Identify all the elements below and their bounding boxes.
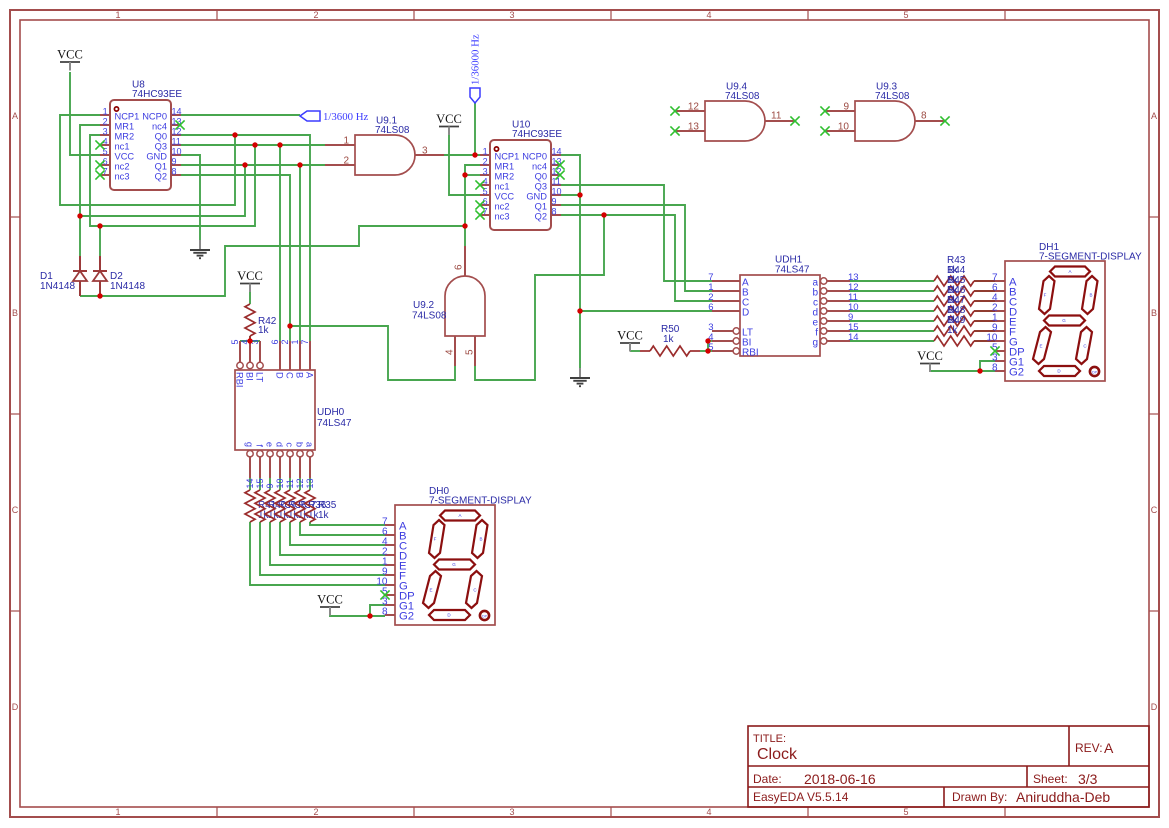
U9.2 pin stubs and numbers xyxy=(464,246,466,276)
svg-text:GND: GND xyxy=(146,151,167,161)
svg-text:MR2: MR2 xyxy=(115,131,135,141)
svg-text:G2: G2 xyxy=(1009,367,1024,379)
op-amp U9.2 74LS08 AND gate xyxy=(412,246,485,366)
wire U10 MR2 xyxy=(465,174,480,176)
chip U8 74HC93EE xyxy=(100,80,182,191)
svg-text:VCC: VCC xyxy=(57,48,83,62)
DH1 pin stubs, pin numbers and pin names xyxy=(995,280,1005,282)
wire U8 Q1 row xyxy=(180,164,325,166)
wire U10 Q3 to UDH1 A xyxy=(560,185,712,281)
diode D1 1N4148 xyxy=(40,256,87,296)
svg-text:A: A xyxy=(1151,111,1157,121)
resistor R46 1k xyxy=(934,285,995,316)
junction (475,155) xyxy=(472,152,477,157)
svg-text:9: 9 xyxy=(843,102,849,113)
svg-text:B: B xyxy=(479,537,482,542)
resistor R39 1k xyxy=(265,490,297,522)
svg-text:VCC: VCC xyxy=(436,112,462,126)
svg-text:1/36000 Hz: 1/36000 Hz xyxy=(470,34,482,85)
svg-text:1: 1 xyxy=(115,807,120,817)
svg-text:D: D xyxy=(12,702,19,712)
svg-text:2: 2 xyxy=(280,339,290,344)
svg-text:5: 5 xyxy=(465,349,476,355)
chip UDH0 74LS47 (rotated) xyxy=(230,339,352,488)
wire DH1 G1 branch xyxy=(980,361,995,371)
svg-text:BI: BI xyxy=(245,372,255,381)
svg-text:15: 15 xyxy=(255,478,265,488)
chip UDH1 74LS47 xyxy=(708,255,858,359)
svg-text:3/3: 3/3 xyxy=(1078,771,1098,787)
wire U9.1 out to U10 NCP1 xyxy=(444,154,480,156)
svg-text:RBI: RBI xyxy=(742,347,759,358)
svg-text:10: 10 xyxy=(552,186,562,196)
UDH0 output pins g-a with bubbles and numbers xyxy=(247,451,253,457)
wire UDH1 to R y311 xyxy=(850,310,934,312)
wire UDH0 col x310 to DH0 row y525 xyxy=(309,478,311,490)
DH1 digit segments xyxy=(1050,267,1090,277)
svg-text:a: a xyxy=(305,442,315,448)
svg-text:12: 12 xyxy=(295,478,305,488)
wire Q2 branch to U9.2 pin5 xyxy=(475,215,604,380)
svg-text:14: 14 xyxy=(172,106,182,116)
svg-text:A: A xyxy=(458,513,461,518)
svg-text:G: G xyxy=(1062,318,1066,323)
svg-text:B: B xyxy=(12,308,18,318)
wire UDH0 col x260 to DH0 row y575 xyxy=(259,478,261,490)
svg-text:nc2: nc2 xyxy=(495,201,510,211)
wire UDH1 to R y331 xyxy=(850,330,934,332)
svg-text:7-SEGMENT-DISPLAY: 7-SEGMENT-DISPLAY xyxy=(429,496,532,507)
resistor R41 1k xyxy=(245,490,277,522)
svg-text:EasyEDA V5.5.14: EasyEDA V5.5.14 xyxy=(753,790,849,804)
wire R42 to UDH0 LT BI RBI xyxy=(249,336,251,341)
svg-text:DP: DP xyxy=(1092,370,1098,374)
svg-text:1: 1 xyxy=(115,10,120,20)
svg-text:B: B xyxy=(1151,308,1157,318)
svg-text:2: 2 xyxy=(343,156,349,167)
svg-text:d: d xyxy=(275,442,285,447)
svg-text:5: 5 xyxy=(903,10,908,20)
svg-text:f: f xyxy=(255,444,265,447)
wire U10 Q2 to UDH1 C xyxy=(560,215,712,301)
junction (465,226) xyxy=(462,223,467,228)
wire U8 NCP1 to Q0 net xyxy=(60,115,235,205)
svg-text:VCC: VCC xyxy=(115,151,135,161)
svg-text:F: F xyxy=(1044,293,1047,298)
svg-text:8: 8 xyxy=(992,362,998,373)
wire U8 MR2 to D2 xyxy=(90,135,255,226)
U9.3 pin stubs and numbers xyxy=(825,110,855,112)
svg-text:3: 3 xyxy=(483,166,488,176)
wire UDH1 to R y321 xyxy=(850,320,934,322)
junction (300,165) xyxy=(297,162,302,167)
junction (708,351) xyxy=(705,348,710,353)
svg-text:6: 6 xyxy=(708,302,713,313)
wire UDH0 col x280 to DH0 row y555 xyxy=(279,478,281,490)
svg-text:G: G xyxy=(452,562,456,567)
wire UDH0 col x270 to DH0 row y565 xyxy=(269,478,271,490)
svg-text:C: C xyxy=(1151,505,1158,515)
junction (100,296) xyxy=(97,293,102,298)
svg-text:4: 4 xyxy=(706,807,711,817)
svg-text:74LS08: 74LS08 xyxy=(725,91,760,102)
junction (280,145) xyxy=(277,142,282,147)
wire U8 MR1 down xyxy=(80,125,100,216)
svg-text:Q1: Q1 xyxy=(535,201,547,211)
svg-text:1N4148: 1N4148 xyxy=(40,281,75,292)
svg-text:D: D xyxy=(1151,702,1158,712)
wire UDH1 D input xyxy=(580,310,712,312)
svg-text:nc1: nc1 xyxy=(495,181,510,191)
junction (465,175) xyxy=(462,172,467,177)
wire U8 Q0 to UDH0 A xyxy=(180,135,310,341)
svg-text:A: A xyxy=(1068,269,1071,274)
UDH1 input pins A B C D with numbers xyxy=(712,280,740,282)
svg-text:Q0: Q0 xyxy=(155,131,167,141)
diode D2 1N4148 xyxy=(93,256,145,296)
svg-text:C: C xyxy=(12,505,19,515)
svg-text:e: e xyxy=(265,442,275,447)
UDH1 pins LT BI RBI with bubbles xyxy=(712,330,733,332)
wire DH0 G1 branch xyxy=(370,605,385,616)
U8 pin stubs, pin numbers and pin names xyxy=(100,114,110,116)
svg-text:nc3: nc3 xyxy=(115,171,130,181)
svg-text:10: 10 xyxy=(838,122,850,133)
ground symbol U8 xyxy=(199,240,201,250)
junction (80,216) xyxy=(77,213,82,218)
resistor R38 1k xyxy=(275,490,307,522)
junction (245,165) xyxy=(242,162,247,167)
svg-text:3: 3 xyxy=(103,126,108,136)
net flag 1/3600 Hz xyxy=(300,111,368,123)
display DH1 7-SEGMENT-DISPLAY xyxy=(986,242,1142,381)
svg-text:A: A xyxy=(12,111,18,121)
junction (604,215) xyxy=(601,212,606,217)
resistor R48 1k xyxy=(934,305,995,336)
svg-text:4: 4 xyxy=(706,10,711,20)
svg-text:NCP1: NCP1 xyxy=(495,151,520,161)
svg-text:13: 13 xyxy=(305,478,315,488)
display DH0 7-SEGMENT-DISPLAY xyxy=(376,486,532,625)
resistor R40 1k xyxy=(255,490,287,522)
svg-text:Date:: Date: xyxy=(753,772,782,786)
wire U10 NCP0 down xyxy=(560,155,580,368)
svg-text:B: B xyxy=(295,372,305,378)
svg-text:12: 12 xyxy=(688,102,700,113)
svg-text:nc4: nc4 xyxy=(152,121,167,131)
wire UDH0 C branch to U9.2 pin4 xyxy=(290,326,455,380)
svg-text:E: E xyxy=(1039,344,1042,349)
wire VCC to DH0 G2 xyxy=(330,615,385,616)
wire UDH1 to R y341 xyxy=(850,340,934,342)
wire VCC to R50 xyxy=(630,350,640,352)
svg-text:nc1: nc1 xyxy=(115,141,130,151)
DH0 pin stubs, pin numbers and pin names xyxy=(385,524,395,526)
svg-text:MR2: MR2 xyxy=(495,171,515,181)
wire flag 1/36000 down xyxy=(474,103,476,155)
svg-text:11: 11 xyxy=(285,479,295,488)
op-amp U9.1 74LS08 AND gate xyxy=(325,116,444,176)
svg-text:nc2: nc2 xyxy=(115,161,130,171)
svg-text:GND: GND xyxy=(526,191,547,201)
svg-text:NCP1: NCP1 xyxy=(115,111,140,121)
svg-text:14: 14 xyxy=(245,478,255,488)
svg-text:10: 10 xyxy=(275,478,285,488)
svg-text:10: 10 xyxy=(172,146,182,156)
op-amp U9.3 74LS08 AND gate xyxy=(820,82,949,142)
svg-text:3: 3 xyxy=(422,146,428,157)
svg-text:LT: LT xyxy=(255,372,265,382)
svg-text:UDH0: UDH0 xyxy=(317,407,345,418)
junction (708,341) xyxy=(705,338,710,343)
resistor R43 1k xyxy=(934,255,995,286)
svg-text:3: 3 xyxy=(509,807,514,817)
svg-text:VCC: VCC xyxy=(495,191,515,201)
svg-text:g: g xyxy=(812,337,818,348)
svg-text:D: D xyxy=(275,372,285,379)
UDH0 input pins D C B A with numbers xyxy=(279,341,281,370)
resistor R50 1k xyxy=(640,324,700,356)
svg-text:3: 3 xyxy=(509,10,514,20)
wire R50 to UDH1 RBI xyxy=(700,350,712,352)
svg-text:5: 5 xyxy=(230,339,240,344)
wire UDH1 to R y291 xyxy=(850,290,934,292)
svg-text:1k: 1k xyxy=(947,325,959,336)
wire VCC to U8 pin5 xyxy=(70,72,100,155)
svg-text:2: 2 xyxy=(313,10,318,20)
U10 pin stubs, pin numbers and pin names xyxy=(480,154,490,156)
resistor R36 1k xyxy=(295,490,327,522)
svg-text:U9.2: U9.2 xyxy=(413,300,435,311)
wire R to DH1 y281 xyxy=(974,280,995,282)
svg-text:11: 11 xyxy=(771,111,782,122)
svg-text:1: 1 xyxy=(343,136,349,147)
wire U8 NCP0 to flag xyxy=(180,114,300,116)
svg-text:nc3: nc3 xyxy=(495,211,510,221)
svg-text:nc4: nc4 xyxy=(532,161,547,171)
wire VCC to R42 xyxy=(249,291,251,304)
junction (290,326) xyxy=(287,323,292,328)
svg-text:MR1: MR1 xyxy=(115,121,135,131)
svg-text:VCC: VCC xyxy=(917,349,943,363)
chip U10 74HC93EE xyxy=(480,120,562,231)
wire UDH1 to R y281 xyxy=(850,280,934,282)
svg-text:9: 9 xyxy=(172,156,177,166)
svg-text:74LS47: 74LS47 xyxy=(775,265,810,276)
wire D1 top branch xyxy=(80,165,245,216)
resistor R35 1k xyxy=(305,490,337,522)
svg-text:TITLE:: TITLE: xyxy=(753,733,786,745)
svg-text:74LS47: 74LS47 xyxy=(317,418,352,429)
wire to UDH1 BI xyxy=(708,340,712,342)
svg-text:b: b xyxy=(295,442,305,447)
svg-text:8: 8 xyxy=(172,166,177,176)
svg-text:Q2: Q2 xyxy=(155,171,167,181)
wire R to DH1 y291 xyxy=(974,290,995,292)
svg-text:1: 1 xyxy=(483,146,488,156)
svg-text:1k: 1k xyxy=(258,325,270,336)
resistor R37 1k xyxy=(285,490,317,522)
svg-text:2: 2 xyxy=(483,156,488,166)
wire UDH0 LT BI RBI tie xyxy=(240,340,260,342)
junction (580,311) xyxy=(577,308,582,313)
svg-text:6: 6 xyxy=(454,264,465,270)
svg-text:4: 4 xyxy=(445,349,456,355)
DH0 digit segments xyxy=(440,511,480,521)
svg-text:8: 8 xyxy=(382,606,388,617)
resistor R44 1k xyxy=(934,265,995,296)
svg-text:Q2: Q2 xyxy=(535,211,547,221)
svg-text:Aniruddha-Deb: Aniruddha-Deb xyxy=(1016,789,1110,805)
wire D1 D2 anodes to U10 MR net xyxy=(80,226,465,296)
svg-text:E: E xyxy=(429,588,432,593)
svg-text:Clock: Clock xyxy=(757,746,798,763)
wire UDH0 col x300 to DH0 row y535 xyxy=(299,478,301,490)
junction (580,195) xyxy=(577,192,582,197)
svg-text:74LS08: 74LS08 xyxy=(412,311,447,322)
svg-text:c: c xyxy=(285,442,295,447)
svg-text:1k: 1k xyxy=(318,510,330,521)
wire UDH0 col x250 to DH0 row y585 xyxy=(249,478,251,490)
resistor R47 1k xyxy=(934,295,995,326)
wire R to DH1 y321 xyxy=(974,320,995,322)
svg-text:B: B xyxy=(1089,293,1092,298)
wire U8 Q2 to UDH0 C xyxy=(180,175,290,341)
svg-text:MR1: MR1 xyxy=(495,161,515,171)
svg-text:6: 6 xyxy=(270,339,280,344)
svg-text:D: D xyxy=(742,307,749,318)
svg-text:1/3600 Hz: 1/3600 Hz xyxy=(323,111,368,123)
wire U10 MR1 xyxy=(465,165,480,175)
svg-text:VCC: VCC xyxy=(317,593,343,607)
no-connect X U10 pins xyxy=(475,160,564,219)
svg-text:14: 14 xyxy=(552,146,562,156)
no-connect X U8 pins xyxy=(95,120,184,179)
wire R to DH1 y341 xyxy=(974,340,995,342)
U9.1 pin stubs and numbers xyxy=(325,144,355,146)
U8 pin-1 marker xyxy=(114,107,118,111)
svg-text:DP: DP xyxy=(482,614,488,618)
svg-text:7: 7 xyxy=(300,339,310,344)
svg-text:8: 8 xyxy=(552,206,557,216)
junction (100,226) xyxy=(97,223,102,228)
svg-text:g: g xyxy=(245,442,255,447)
wire R to DH1 y311 xyxy=(974,310,995,312)
svg-text:1: 1 xyxy=(103,106,108,116)
wire U10 Q1 to UDH1 B xyxy=(560,205,712,291)
junction (235,135) xyxy=(232,132,237,137)
svg-text:VCC: VCC xyxy=(237,269,263,283)
wire VCC to U10 pin5 xyxy=(449,135,480,195)
svg-text:Q1: Q1 xyxy=(155,161,167,171)
svg-text:9: 9 xyxy=(265,483,275,488)
no-connect X DH1 DP xyxy=(990,346,999,355)
ground symbol U10 xyxy=(579,368,581,378)
wire UDH1 to R y301 xyxy=(850,300,934,302)
svg-text:1N4148: 1N4148 xyxy=(110,281,145,292)
svg-text:74HC93EE: 74HC93EE xyxy=(512,129,562,140)
svg-text:14: 14 xyxy=(848,332,859,343)
wire U10 GND xyxy=(560,194,580,196)
svg-text:7-SEGMENT-DISPLAY: 7-SEGMENT-DISPLAY xyxy=(1039,252,1142,263)
svg-text:Sheet:: Sheet: xyxy=(1033,772,1068,786)
svg-text:1: 1 xyxy=(290,339,300,344)
wire UDH1 BI RBI tie xyxy=(707,341,709,351)
wire UDH0 col x290 to DH0 row y545 xyxy=(289,478,291,490)
wire D1 to Q1 net xyxy=(79,216,81,256)
svg-text:8: 8 xyxy=(921,111,927,122)
svg-text:C: C xyxy=(285,372,295,379)
wire UDH0 B net xyxy=(299,165,301,341)
svg-text:Q0: Q0 xyxy=(535,171,547,181)
wire R to DH1 y331 xyxy=(974,330,995,332)
svg-text:11: 11 xyxy=(172,136,181,146)
U10 pin-1 marker xyxy=(494,147,498,151)
svg-text:F: F xyxy=(434,537,437,542)
svg-text:A: A xyxy=(305,372,315,379)
svg-text:RBI: RBI xyxy=(235,372,245,388)
UDH1 output pins a-g with bubbles and numbers xyxy=(821,278,827,284)
svg-text:13: 13 xyxy=(688,122,700,133)
title block xyxy=(748,726,1149,807)
svg-text:VCC: VCC xyxy=(617,329,643,343)
junction (980,371) xyxy=(977,368,982,373)
wire D2 top xyxy=(99,226,101,256)
wire U10 MR to U9.2 out xyxy=(464,175,466,246)
resistor R49 1k xyxy=(934,315,995,346)
wire R to DH1 y301 xyxy=(974,300,995,302)
svg-text:REV:: REV: xyxy=(1075,741,1103,755)
svg-text:74LS08: 74LS08 xyxy=(875,91,910,102)
title block text xyxy=(753,733,1114,805)
junction (255,145) xyxy=(252,142,257,147)
UDH0 pins RBI BI LT with bubbles xyxy=(239,341,241,362)
svg-text:1k: 1k xyxy=(663,334,675,345)
svg-text:2: 2 xyxy=(103,116,108,126)
resistor R42 1k xyxy=(245,304,277,341)
op-amp U9.4 74LS08 AND gate xyxy=(670,82,799,142)
svg-text:NCP0: NCP0 xyxy=(142,111,167,121)
wire UDH0 D net xyxy=(279,145,281,341)
svg-text:A: A xyxy=(1104,740,1114,756)
net flag 1/36000 Hz xyxy=(470,34,482,103)
resistor R45 1k xyxy=(934,275,995,306)
svg-text:NCP0: NCP0 xyxy=(522,151,547,161)
no-connect X DH0 DP xyxy=(380,590,389,599)
svg-text:G2: G2 xyxy=(399,611,414,623)
junction (370,616) xyxy=(367,613,372,618)
junction (250,341) xyxy=(247,338,252,343)
U9.4 pin stubs and numbers xyxy=(675,110,705,112)
svg-text:9: 9 xyxy=(552,196,557,206)
svg-text:Drawn By:: Drawn By: xyxy=(952,790,1007,804)
svg-text:Q3: Q3 xyxy=(535,181,547,191)
svg-text:Q3: Q3 xyxy=(155,141,167,151)
wire U8 GND to ground xyxy=(180,155,200,240)
wire VCC to DH1 G2 xyxy=(930,370,995,372)
svg-text:2018-06-16: 2018-06-16 xyxy=(804,771,876,787)
svg-text:74HC93EE: 74HC93EE xyxy=(132,89,182,100)
svg-text:74LS08: 74LS08 xyxy=(375,125,410,136)
wire U8 Q3 row xyxy=(180,144,325,146)
svg-text:5: 5 xyxy=(903,807,908,817)
svg-text:2: 2 xyxy=(313,807,318,817)
